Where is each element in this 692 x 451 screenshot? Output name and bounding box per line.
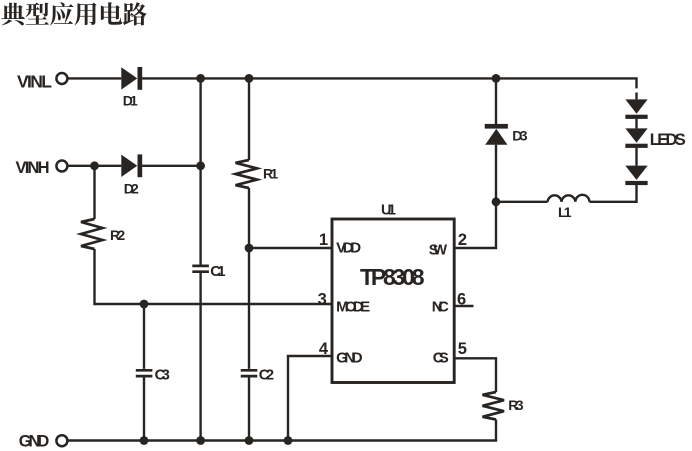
svg-text:1: 1: [319, 231, 328, 249]
resistor R2: [81, 219, 125, 249]
resistor R1: [236, 160, 279, 188]
junction top rail x200: [196, 74, 205, 83]
wire MODE line down to C3: [143, 304, 145, 369]
title 典型应用电路: [1, 2, 146, 25]
wire MODE line to pin 3: [144, 303, 332, 305]
wire CS pin 5 to R3: [454, 358, 496, 392]
wire SW pin 2 to switch node: [454, 202, 496, 248]
svg-text:5: 5: [458, 340, 467, 358]
wire R1 to C2: [248, 188, 250, 369]
wire LED2 to LED3: [635, 148, 637, 166]
wire switch node to L1: [496, 201, 548, 203]
pin 6 label: [457, 291, 466, 309]
wire top rail down to R1: [248, 78, 250, 160]
capacitor C3: [136, 367, 170, 384]
op-amp U1 IC box TP8308: [332, 203, 454, 383]
pin name SW: [429, 243, 448, 259]
svg-text:D1: D1: [123, 93, 138, 109]
junction VDD tap: [245, 244, 254, 253]
svg-text:2: 2: [458, 231, 467, 249]
svg-text:D3: D3: [512, 128, 528, 144]
svg-text:R2: R2: [110, 227, 125, 243]
svg-text:GND: GND: [19, 432, 50, 450]
wire top corner to LED1: [635, 93, 637, 100]
resistor R3: [483, 392, 524, 420]
wire R3 to ground rail: [68, 420, 496, 441]
svg-text:GND: GND: [336, 349, 363, 366]
wire VINL to D1: [68, 77, 122, 79]
diode D3: [485, 124, 528, 145]
wire LED1 to LED2: [635, 119, 637, 128]
svg-text:L1: L1: [558, 204, 572, 220]
wire NC pin 6 stub: [454, 305, 473, 307]
pin 1 label: [319, 231, 328, 249]
svg-text:C2: C2: [259, 367, 274, 384]
pin 5 label: [458, 340, 467, 358]
svg-text:VINL: VINL: [17, 71, 52, 91]
junction C3 on MODE line: [140, 300, 149, 309]
svg-text:LEDS: LEDS: [650, 131, 686, 149]
svg-text:VINH: VINH: [16, 159, 50, 177]
inductor L1: [548, 195, 590, 220]
pin 3 label: [318, 291, 327, 309]
wire R2 to MODE line: [95, 249, 145, 304]
terminal GND: [19, 432, 68, 450]
diode D2: [121, 154, 142, 196]
wire D3 to switch node: [495, 145, 497, 202]
wire x200 top rail down to C1: [199, 78, 201, 264]
junction C2 column at ground: [245, 436, 254, 445]
pin name GND: [336, 349, 363, 366]
junction C1 column at ground: [196, 436, 205, 445]
wire top rail down to D3: [495, 78, 497, 124]
svg-text:VDD: VDD: [336, 240, 361, 257]
terminal VINL: [17, 71, 67, 91]
wire VINH to D2: [68, 165, 122, 167]
wire C1 to ground rail: [199, 273, 201, 441]
pin name CS: [433, 349, 449, 366]
pin 2 label: [458, 231, 467, 249]
svg-text:NC: NC: [432, 299, 449, 316]
wire VDD pin 1: [249, 247, 332, 249]
junction C3 column at ground: [140, 436, 149, 445]
junction VINH R2 branch: [90, 161, 99, 170]
junction D2 out at x200: [196, 161, 205, 170]
capacitor C1: [192, 263, 225, 280]
diode D1: [121, 67, 142, 109]
pin name VDD: [336, 240, 361, 257]
junction top rail x249: [245, 74, 254, 83]
LED 3: [625, 166, 647, 185]
junction top rail x496: [492, 74, 501, 83]
svg-text:3: 3: [318, 291, 327, 309]
wire C2 to ground rail: [248, 377, 250, 440]
junction GND pin at rail: [284, 436, 293, 445]
svg-text:C1: C1: [210, 263, 225, 280]
svg-text:C3: C3: [155, 367, 170, 384]
LED 1: [625, 99, 647, 118]
svg-text:MODE: MODE: [336, 299, 370, 316]
wire L1 to LED string: [589, 185, 636, 202]
svg-text:CS: CS: [433, 349, 449, 366]
pin name NC: [432, 299, 449, 316]
svg-text:R3: R3: [508, 397, 523, 413]
wire GND pin 4 to ground rail: [288, 356, 332, 441]
wire D2 to node x200: [142, 165, 201, 167]
pin 4 label: [319, 340, 329, 358]
svg-text:R1: R1: [263, 166, 278, 182]
capacitor C2: [241, 367, 274, 384]
wire top rail D1 to LED column: [142, 78, 636, 88]
wire VINH down to R2: [93, 166, 95, 219]
svg-text:D2: D2: [124, 181, 139, 197]
wire C3 to ground rail: [143, 377, 145, 440]
junction switch node: [492, 197, 501, 206]
svg-text:U1: U1: [381, 203, 396, 219]
LED 2: [625, 128, 685, 148]
svg-text:TP8308: TP8308: [360, 264, 425, 290]
pin name MODE: [336, 299, 370, 316]
svg-text:SW: SW: [429, 243, 448, 259]
terminal VINH: [16, 159, 68, 177]
